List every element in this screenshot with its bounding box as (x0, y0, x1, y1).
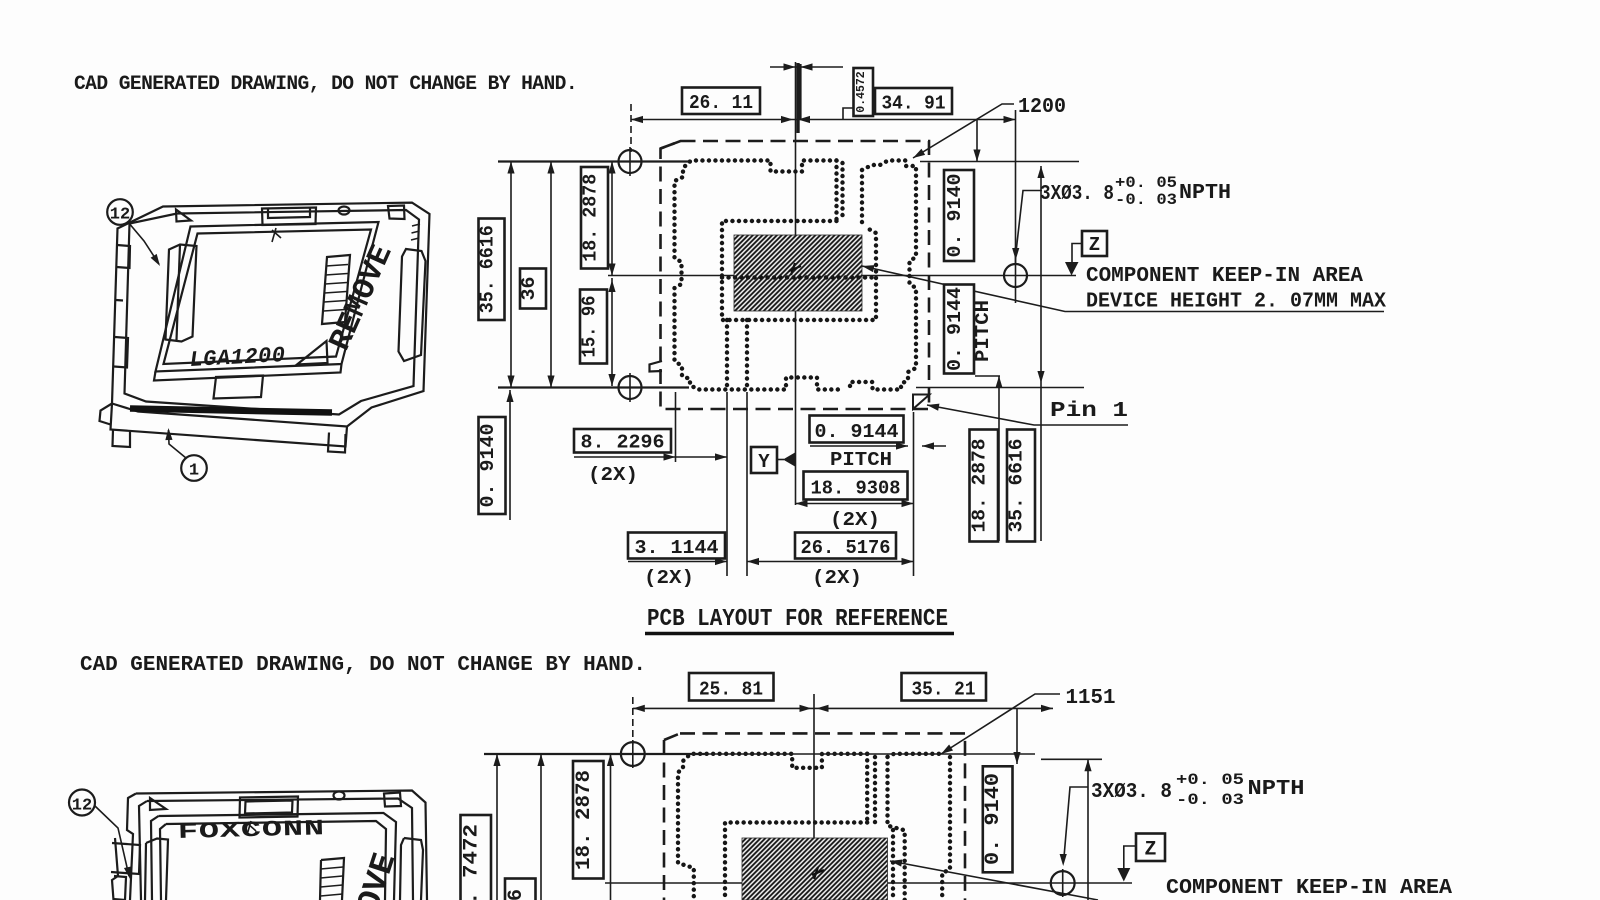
dim 0.9144 pitch line (810, 445, 946, 447)
left hooks bottom socket (111, 843, 140, 900)
svg-text:0. 9140: 0. 9140 (477, 424, 499, 508)
dim box 0.4572 (vertical) (854, 68, 874, 116)
svg-text:FOXCONN: FOXCONN (178, 816, 326, 845)
svg-text:PCB LAYOUT FOR REFERENCE: PCB LAYOUT FOR REFERENCE (647, 606, 948, 633)
dim 0.4572 line (770, 66, 843, 68)
cap hole top (339, 207, 350, 215)
NPTH hole right (1004, 264, 1027, 287)
svg-text:1200: 1200 (1018, 96, 1066, 119)
top pad row line bottom view (484, 753, 706, 755)
datum Z box (1082, 231, 1107, 256)
corner key top-left (176, 210, 191, 222)
svg-text:PITCH: PITCH (972, 300, 994, 362)
right connector ladder (322, 255, 350, 324)
svg-text:LGA1200: LGA1200 (189, 343, 286, 373)
right tick line bottom view (1041, 758, 1102, 760)
svg-text:1: 1 (189, 462, 199, 481)
dim box 3.1144 (628, 533, 725, 559)
dim box 18.2878 upper-left (vertical) (581, 167, 608, 269)
svg-text:(2X): (2X) (644, 567, 694, 589)
hatch center mark (789, 263, 801, 275)
svg-text:COMPONENT KEEP-IN AREA: COMPONENT KEEP-IN AREA (1166, 877, 1452, 900)
cavity top edges (151, 813, 396, 900)
dim 3.1144 line (628, 561, 727, 563)
svg-text:18. 2878: 18. 2878 (969, 439, 991, 533)
hole bottom-left vertical tick (629, 373, 631, 402)
svg-text:18. 2878: 18. 2878 (573, 770, 596, 870)
horizontal center line bottom view (605, 882, 1132, 884)
svg-text:-0. 03: -0. 03 (1115, 191, 1177, 209)
svg-text:NPTH: NPTH (1248, 778, 1305, 801)
dim 0.9140 left vertical line (509, 390, 511, 520)
dim box 26.5176 (795, 533, 896, 559)
svg-text:35. 7472: 35. 7472 (461, 824, 484, 900)
dim 34.91 line (796, 119, 1016, 121)
extension line right (1015, 110, 1017, 263)
FOXCONN socket outer outline (112, 791, 427, 900)
dim 18.2878 right box (970, 430, 999, 542)
svg-text:+0. 05: +0. 05 (1176, 771, 1244, 789)
dim 0.9140 arrow bottom (1016, 708, 1018, 764)
dim box 0.9144 pitch (810, 416, 904, 443)
svg-text:25. 81: 25. 81 (699, 679, 763, 701)
pin field top slot columns bottom (867, 754, 875, 823)
svg-text:1151: 1151 (1066, 687, 1116, 710)
ladder rungs (324, 265, 349, 312)
pin field top slot column left (834, 161, 838, 222)
top center tab (262, 208, 316, 226)
pad offset line (799, 64, 801, 120)
vertical center line bottom view (813, 694, 815, 900)
NPTH hole top-left (619, 150, 642, 173)
datum Y box (751, 447, 777, 473)
svg-text:Pin 1: Pin 1 (1050, 400, 1128, 423)
pin field top slot column right (840, 163, 844, 221)
balloon 12 leader (128, 222, 159, 264)
dim 18.2878 right vertical line (998, 376, 1000, 541)
balloon 1 (181, 455, 207, 481)
bottom center tab (214, 376, 264, 399)
thick center segment top (796, 63, 799, 133)
right cap latch bottom socket (400, 838, 423, 900)
leader arrow on hatch bottom (889, 857, 902, 866)
datum Z leader bottom (1124, 846, 1136, 868)
dim 25.81 line (633, 707, 814, 709)
balloon 12 bottom leader (95, 806, 129, 876)
die keep-out hatched area bottom (742, 838, 888, 900)
socket rim inner line (125, 210, 420, 415)
svg-text:Z: Z (1089, 234, 1100, 256)
dim box 8.2296 (574, 429, 671, 453)
bottom pad row line left (498, 386, 689, 388)
svg-text:(2X): (2X) (830, 509, 880, 531)
socket body dashed outline bottom (664, 733, 965, 900)
pin field right bank boundary bottom (888, 754, 951, 900)
dim box 0.9140 left (vertical) (479, 417, 506, 514)
dim 35.6616 right box (1007, 430, 1035, 542)
dim box 0.9140 bottom (vertical) (983, 766, 1013, 872)
svg-text:NPTH: NPTH (1179, 182, 1231, 205)
dim box 34.91 (875, 88, 952, 114)
balloon 1 leader (169, 430, 187, 458)
dim 0.9140 right line (976, 120, 978, 162)
datum Z box bottom (1136, 834, 1165, 862)
leader 1151 (941, 694, 1060, 754)
dim box 0.9144 right (vertical) (944, 285, 974, 374)
svg-text:26. 5176: 26. 5176 (801, 537, 891, 559)
left latch bar bottom socket (145, 839, 168, 900)
hole right vertical tick (1015, 247, 1017, 303)
svg-text:0. 9144: 0. 9144 (944, 287, 966, 371)
cavity floor (156, 222, 379, 372)
pin cavity boundary (722, 221, 876, 320)
hole right tick bottom view (1062, 869, 1064, 897)
svg-text:Z: Z (1144, 839, 1156, 862)
datum Z triangle bottom (1117, 868, 1130, 882)
leader line hatch to keep-in note (862, 266, 1384, 312)
svg-text:(2X): (2X) (812, 567, 862, 589)
NPTH hole right bottom view (1051, 871, 1075, 895)
dim line 3X holes vertical (1040, 166, 1042, 541)
ladder rungs bottom socket (321, 867, 344, 896)
bottom pad pitch line right (975, 375, 1000, 377)
dim 18.2878 vertical line (upper left) (611, 162, 613, 276)
leader 1200 (913, 104, 1014, 158)
dim 8.2296 line (574, 456, 727, 458)
dim 26.11 line (631, 119, 796, 121)
svg-text:DEVICE HEIGHT 2. 07MM MAX: DEVICE HEIGHT 2. 07MM MAX (1086, 291, 1386, 314)
front skirt outline (111, 404, 348, 447)
dim 36 line bottom (540, 754, 542, 900)
svg-text:26. 11: 26. 11 (689, 92, 753, 114)
dim 3X vertical line bottom (1087, 759, 1089, 900)
socket chamfer top-left (661, 141, 681, 149)
svg-text:0. 9140: 0. 9140 (944, 174, 966, 258)
dim box 35.7472 bottom (vertical, clipped) (461, 815, 492, 900)
extension line hole to dim (630, 104, 632, 152)
svg-text:PITCH: PITCH (830, 449, 892, 471)
dim 26.5176 line (747, 561, 914, 563)
svg-text:34. 91: 34. 91 (882, 93, 946, 115)
socket body outer outline (112, 203, 430, 427)
extension line x727 (726, 392, 728, 576)
svg-text:8. 2296: 8. 2296 (581, 432, 665, 454)
dim box 15.96 (vertical) (580, 290, 607, 364)
socket left-edge tab (650, 361, 663, 372)
datum Z leader (1072, 244, 1082, 263)
pin field right bank boundary (850, 161, 916, 390)
dim box 18.9308 (804, 472, 908, 500)
dim box 36 (vertical) (520, 269, 546, 309)
svg-text:0.4572: 0.4572 (855, 71, 868, 113)
dim 15.96 vertical line (611, 278, 613, 386)
front edge dark strip (130, 409, 332, 413)
die keep-out hatched area (734, 235, 862, 311)
dim box 26.11 (682, 88, 760, 115)
extension line x675 (675, 392, 677, 462)
svg-text:(2X): (2X) (588, 464, 638, 486)
leader arrow on hatch right edge (861, 262, 874, 272)
svg-text:COMPONENT KEEP-IN AREA: COMPONENT KEEP-IN AREA (1086, 265, 1363, 288)
top tab inner (245, 801, 293, 814)
svg-text:Y: Y (758, 451, 770, 473)
corner key top-left bottom socket (150, 798, 166, 810)
dim box 35.6616 (vertical) (479, 219, 505, 321)
dim 18.2878 bottom-left line (610, 754, 612, 900)
pin cavity boundary bottom (725, 823, 893, 900)
bottom pad row line right (916, 387, 1084, 389)
pin field bottom slot column left (725, 320, 729, 390)
pin1 triangle on floor (297, 341, 328, 365)
svg-text:3XØ3. 8: 3XØ3. 8 (1040, 183, 1114, 206)
dim 36 vertical line (550, 162, 552, 388)
Pin 1 leader (927, 405, 1128, 425)
pin field outer dotted boundary bottom (678, 754, 867, 900)
small pick mark top (272, 228, 281, 242)
top pad row line right (920, 161, 1079, 163)
extension line x747 (746, 392, 748, 576)
svg-text:15. 96: 15. 96 (579, 296, 601, 358)
svg-text:0. 9140: 0. 9140 (982, 773, 1005, 865)
small pick mark bottom socket (247, 821, 256, 835)
right cap latch outer (399, 249, 426, 361)
svg-text:35. 6616: 35. 6616 (477, 225, 499, 313)
title underline (645, 632, 954, 636)
svg-text:35. 21: 35. 21 (912, 679, 976, 701)
svg-text:36: 36 (518, 277, 540, 301)
horizontal center line (608, 275, 1076, 277)
dim box 0.9140 right (vertical) (944, 170, 974, 261)
left latch bar (166, 245, 197, 342)
svg-text:-0. 03: -0. 03 (1176, 791, 1244, 809)
dim 35.6616 vertical line (510, 162, 512, 388)
left edge hooks lower (114, 300, 128, 368)
svg-text:35. 6616: 35. 6616 (1006, 439, 1028, 533)
svg-text:+0. 05: +0. 05 (1115, 174, 1177, 192)
dim 35.21 line (814, 707, 1053, 709)
NPTH hole top-left bottom view (621, 742, 645, 766)
balloon 12 (107, 199, 133, 225)
NPTH hole bottom-left (619, 376, 642, 399)
datum Y triangle (777, 459, 784, 461)
svg-text:3. 1144: 3. 1144 (635, 537, 719, 559)
corner key top-right (388, 206, 405, 220)
cavity wall second line (160, 821, 386, 900)
FOXCONN socket rim inner line (139, 799, 413, 900)
dim box 36 bottom (vertical, clipped) (505, 879, 536, 900)
cavity wall line (164, 230, 372, 365)
svg-text:0. 9144: 0. 9144 (815, 421, 899, 443)
svg-text:12: 12 (72, 797, 92, 816)
dotted row through hatch center (722, 275, 876, 279)
svg-text:12: 12 (110, 206, 130, 225)
leader 3X holes bottom (1064, 787, 1088, 857)
right connector ladder bottom socket (320, 858, 344, 900)
extension hole to dim bottom (632, 697, 634, 745)
leader line hatch bottom (890, 861, 1098, 900)
hatch center mark bottom (812, 867, 824, 879)
datum Z triangle (1065, 262, 1079, 276)
svg-text:18. 2878: 18. 2878 (580, 174, 602, 262)
Pin 1 corner triangle (913, 395, 930, 410)
svg-text:3XØ3. 8: 3XØ3. 8 (1091, 781, 1172, 804)
svg-text:CAD GENERATED DRAWING, DO NOT: CAD GENERATED DRAWING, DO NOT CHANGE BY … (80, 654, 646, 677)
cavity floor bottom ledge (154, 364, 342, 381)
leader 3X holes (1016, 191, 1042, 253)
socket body dashed outline (661, 141, 930, 409)
front left foot (113, 430, 131, 448)
top center tab inner (268, 208, 310, 218)
svg-text:CAD GENERATED DRAWING, DO NOT: CAD GENERATED DRAWING, DO NOT CHANGE BY … (74, 73, 577, 96)
vertical center line (795, 62, 797, 505)
top center tab bottom socket (240, 797, 299, 818)
dim box 35.21 (902, 673, 987, 701)
svg-text:36: 36 (505, 889, 528, 900)
pin field bottom slot column right (745, 320, 749, 390)
left edge step upper (117, 245, 131, 268)
hole vertical tick bottom view (632, 740, 634, 768)
cap hole bottom socket (334, 792, 345, 800)
dim 18.9308 line (796, 503, 914, 505)
dim box 25.81 (689, 673, 774, 701)
dim box 18.2878 bottom-left (vertical) (573, 761, 604, 879)
right edge small hatch marks (411, 224, 420, 240)
extension line x913 (913, 412, 915, 576)
left latch bar edge (177, 245, 181, 341)
top pad row line left (498, 160, 689, 162)
front right foot (328, 433, 346, 453)
connector 0.4572 box (843, 108, 854, 120)
left corner wedge (100, 404, 113, 425)
corner key top-right bottom socket (384, 793, 401, 807)
dim 35.7472 line bottom (496, 754, 498, 900)
pin field outer dotted boundary (left bank) (675, 161, 842, 390)
svg-text:18. 9308: 18. 9308 (811, 478, 901, 500)
balloon 12 bottom (69, 790, 95, 816)
hole top-left vertical tick (629, 147, 631, 176)
